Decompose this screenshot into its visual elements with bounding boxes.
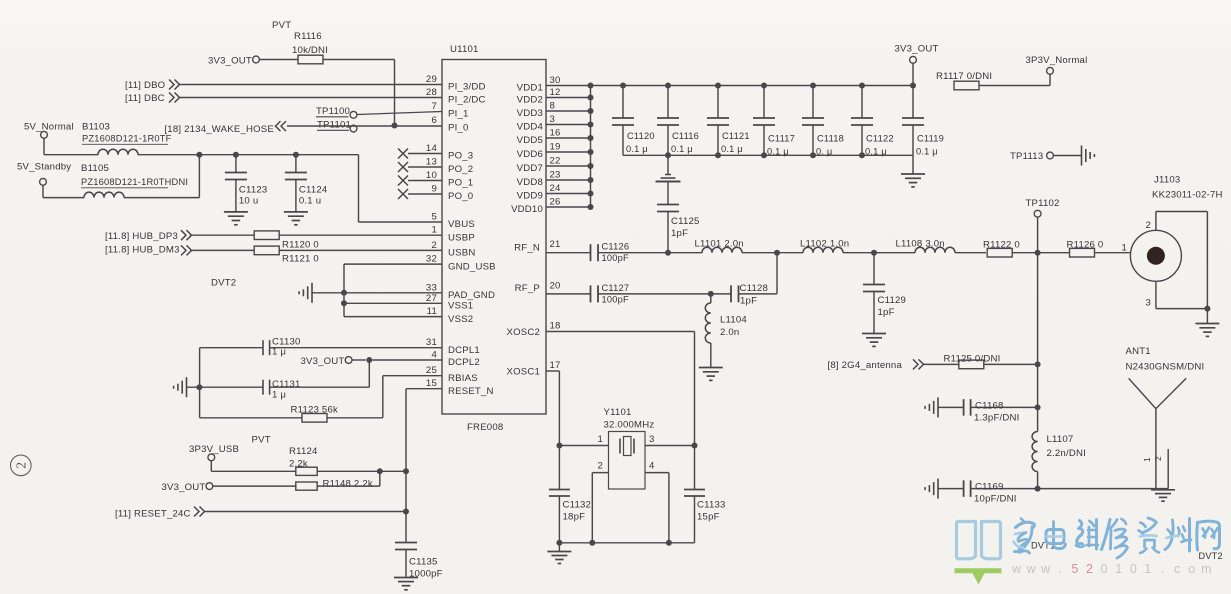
svg-text:VDD8: VDD8 [517,177,543,188]
svg-text:1: 1 [1142,457,1152,462]
svg-text:1pF: 1pF [878,307,895,318]
svg-text:2: 2 [597,461,603,472]
svg-text:1000pF: 1000pF [409,569,443,580]
svg-text:1: 1 [1121,243,1127,254]
svg-text:VDD6: VDD6 [517,149,543,160]
svg-text:11: 11 [427,306,437,317]
svg-text:w: w [1040,562,1051,576]
svg-text:18: 18 [550,321,561,332]
svg-text:5: 5 [1071,562,1078,576]
svg-text:R1120 0: R1120 0 [282,240,319,251]
svg-text:1.3pF/DNI: 1.3pF/DNI [974,412,1020,423]
svg-text:PZ1608D121-1R0TF: PZ1608D121-1R0TF [82,134,172,144]
svg-text:TP1100: TP1100 [316,106,350,117]
svg-text:13: 13 [426,157,437,168]
svg-text:R1124: R1124 [289,446,318,457]
svg-text:RF_P: RF_P [515,283,540,294]
svg-text:2: 2 [1145,220,1151,231]
svg-text:2.0n: 2.0n [720,327,739,338]
svg-text:C1123: C1123 [239,185,268,196]
svg-text:19: 19 [550,142,561,153]
svg-text:PI_0: PI_0 [448,123,469,134]
svg-text:24: 24 [550,183,562,194]
svg-text:VDD2: VDD2 [517,95,543,106]
svg-text:3: 3 [1145,298,1151,309]
svg-text:C1131: C1131 [272,379,301,390]
svg-text:23: 23 [550,170,561,181]
svg-text:100pF: 100pF [602,295,629,305]
svg-text:1 μ: 1 μ [272,390,286,401]
svg-text:L1101 2.0n: L1101 2.0n [695,239,744,250]
svg-text:[11] DBC: [11] DBC [125,93,165,104]
svg-text:22: 22 [550,156,561,167]
svg-text:3P3V_USB: 3P3V_USB [189,444,239,455]
svg-text:VDD1: VDD1 [517,83,543,94]
svg-text:32: 32 [426,254,437,265]
svg-text:R1123 56k: R1123 56k [291,405,339,416]
svg-text:[8] 2G4_antenna: [8] 2G4_antenna [828,360,903,371]
svg-text:1pF: 1pF [671,228,688,239]
svg-text:4: 4 [649,461,655,472]
svg-text:10pF/DNI: 10pF/DNI [974,494,1017,505]
svg-text:XOSC2: XOSC2 [506,327,540,338]
svg-text:TP1102: TP1102 [1026,198,1060,209]
svg-text:16: 16 [550,128,561,139]
svg-text:C1128: C1128 [740,283,769,294]
svg-text:ANT1: ANT1 [1126,346,1151,357]
svg-text:R1148 2.2k: R1148 2.2k [323,479,373,490]
svg-text:[11] RESET_24C: [11] RESET_24C [115,509,191,520]
svg-text:U1101: U1101 [450,44,479,55]
svg-text:0: 0 [1101,562,1108,576]
svg-text:25: 25 [426,365,437,376]
svg-text:TP1113: TP1113 [1010,151,1043,162]
svg-text:USBP: USBP [448,232,475,243]
svg-text:0. μ: 0. μ [816,147,833,157]
svg-text:VDD9: VDD9 [517,191,543,202]
svg-text:C1169: C1169 [975,482,1004,493]
svg-text:N2430GNSM/DNI: N2430GNSM/DNI [1126,362,1205,373]
svg-text:DCPL2: DCPL2 [448,357,480,368]
svg-text:o: o [1188,562,1195,576]
svg-text:1: 1 [431,225,437,236]
svg-text:1pF: 1pF [740,296,757,307]
svg-text:26: 26 [550,197,561,208]
svg-text:C1126: C1126 [602,242,630,252]
svg-text:31: 31 [426,337,437,348]
svg-text:3P3V_Normal: 3P3V_Normal [1026,55,1088,66]
svg-text:VSS2: VSS2 [448,314,473,325]
svg-text:R1116: R1116 [294,31,322,42]
svg-text:C1119: C1119 [917,134,944,144]
svg-text:3: 3 [550,114,556,125]
svg-text:C1117: C1117 [768,134,795,144]
svg-text:PZ1608D121-1R0THDNI: PZ1608D121-1R0THDNI [81,177,188,187]
svg-text:[11] DBO: [11] DBO [125,80,165,91]
svg-text:PO_0: PO_0 [448,191,473,202]
svg-text:VDD10: VDD10 [511,204,543,215]
svg-text:USBN: USBN [448,248,475,259]
svg-text:9: 9 [431,184,437,195]
svg-text:30: 30 [550,75,561,86]
svg-text:w: w [1011,562,1022,576]
svg-text:PI_1: PI_1 [448,109,469,120]
svg-text:5V_Normal: 5V_Normal [24,122,74,133]
svg-text:17: 17 [550,360,561,371]
svg-text:c: c [1174,562,1180,576]
svg-text:PI_3/DD: PI_3/DD [448,82,486,93]
svg-text:R1121 0: R1121 0 [282,254,319,265]
svg-text:2: 2 [1153,456,1163,461]
svg-text:2: 2 [1086,562,1093,576]
svg-text:RESET_N: RESET_N [448,386,494,397]
svg-text:1: 1 [597,434,603,445]
svg-text:28: 28 [426,87,437,98]
svg-text:0.1 μ: 0.1 μ [916,147,938,157]
svg-text:PO_2: PO_2 [448,164,473,175]
svg-text:.: . [1059,562,1062,576]
svg-text:VBUS: VBUS [448,219,475,230]
svg-text:15: 15 [426,378,437,389]
svg-text:[11.8] HUB_DM3: [11.8] HUB_DM3 [105,245,180,256]
svg-text:[11.8] HUB_DP3: [11.8] HUB_DP3 [105,231,178,242]
svg-text:R1125 0/DNI: R1125 0/DNI [944,354,1001,365]
svg-text:B1105: B1105 [81,163,109,174]
svg-text:R1117 0/DNI: R1117 0/DNI [936,71,992,82]
svg-text:[18] 2134_WAKE_HOSE: [18] 2134_WAKE_HOSE [164,124,274,135]
svg-text:C1127: C1127 [602,283,630,293]
svg-text:1: 1 [1144,562,1151,576]
svg-text:C1168: C1168 [975,400,1004,411]
svg-text:C1120: C1120 [627,131,655,141]
svg-text:6: 6 [431,115,437,126]
svg-text:L1104: L1104 [720,315,747,326]
svg-text:C1124: C1124 [299,185,328,196]
svg-text:32.000MHz: 32.000MHz [604,420,655,431]
svg-text:DVT2: DVT2 [1199,551,1223,561]
svg-text:VDD4: VDD4 [517,122,544,133]
svg-text:8: 8 [550,101,556,112]
svg-text:5V_Standby: 5V_Standby [17,162,71,173]
svg-text:DVT1: DVT1 [1031,541,1055,551]
svg-text:20: 20 [550,281,561,292]
svg-text:VSS1: VSS1 [448,301,473,312]
svg-text:B1103: B1103 [82,122,110,133]
svg-text:Y1101: Y1101 [604,407,632,418]
svg-text:VDD7: VDD7 [517,163,543,174]
svg-text:0.1 μ: 0.1 μ [721,144,743,154]
svg-text:RF_N: RF_N [514,243,540,254]
svg-text:2: 2 [13,462,28,469]
svg-text:PO_3: PO_3 [448,151,473,162]
svg-text:TP1101: TP1101 [317,120,351,131]
svg-text:18pF: 18pF [563,512,586,523]
svg-text:0: 0 [1130,562,1137,576]
svg-text:L1108 3.0n: L1108 3.0n [896,239,945,250]
svg-text:R1122 0: R1122 0 [983,240,1020,251]
svg-text:GND_USB: GND_USB [448,261,496,272]
svg-text:10k/DNI: 10k/DNI [292,45,328,56]
svg-text:C1133: C1133 [697,500,726,511]
svg-text:PO_1: PO_1 [448,178,473,189]
svg-text:L1102 1.0n: L1102 1.0n [800,239,849,250]
svg-text:15pF: 15pF [697,512,720,523]
svg-text:3V3_OUT: 3V3_OUT [161,482,205,493]
svg-text:R1126 0: R1126 0 [1067,240,1104,251]
svg-text:0.1 u: 0.1 u [299,196,321,207]
svg-text:2.2n/DNI: 2.2n/DNI [1047,448,1086,459]
svg-text:1 μ: 1 μ [272,347,286,358]
svg-text:0.1 μ: 0.1 μ [626,144,648,154]
svg-text:100pF: 100pF [602,253,629,263]
svg-text:3: 3 [649,434,655,445]
svg-text:C1135: C1135 [409,557,438,568]
svg-text:FRE008: FRE008 [467,422,503,433]
svg-text:12: 12 [550,87,561,98]
svg-text:3V3_OUT: 3V3_OUT [208,56,252,67]
svg-text:21: 21 [550,239,561,250]
svg-text:RBIAS: RBIAS [448,373,478,384]
svg-text:2: 2 [431,240,437,251]
svg-text:5: 5 [431,212,437,223]
svg-text:L1107: L1107 [1047,434,1074,445]
svg-text:14: 14 [426,143,438,154]
svg-text:m: m [1201,562,1211,576]
svg-text:0.1 μ: 0.1 μ [767,147,789,157]
svg-text:C1122: C1122 [866,134,894,144]
svg-text:10 u: 10 u [239,196,258,207]
svg-text:KK23011-02-7H: KK23011-02-7H [1152,190,1223,201]
svg-text:4: 4 [431,350,437,361]
svg-text:33: 33 [426,282,437,293]
svg-text:3V3_OUT: 3V3_OUT [300,356,344,367]
svg-text:PVT: PVT [252,435,271,446]
svg-text:DVT2: DVT2 [211,278,236,289]
svg-text:1: 1 [1115,562,1122,576]
svg-text:0.1 μ: 0.1 μ [671,144,693,154]
svg-text:29: 29 [426,74,437,85]
svg-text:DCPL1: DCPL1 [448,345,480,356]
svg-text:2.2k: 2.2k [289,459,308,470]
svg-text:w: w [1026,562,1037,576]
svg-text:3V3_OUT: 3V3_OUT [895,44,939,55]
svg-text:0.1 μ: 0.1 μ [865,147,887,157]
svg-text:C1125: C1125 [671,216,700,227]
svg-text:VDD5: VDD5 [517,135,543,146]
svg-text:10: 10 [426,170,437,181]
svg-text:C1132: C1132 [563,500,592,511]
svg-text:27: 27 [426,293,437,304]
svg-text:J1103: J1103 [1154,175,1180,186]
svg-text:XOSC1: XOSC1 [506,367,540,378]
svg-text:C1118: C1118 [817,134,844,144]
svg-text:.: . [1161,562,1164,576]
svg-text:PVT: PVT [272,20,291,31]
svg-text:7: 7 [431,101,437,112]
svg-text:C1121: C1121 [722,131,750,141]
svg-text:VDD3: VDD3 [517,108,543,119]
svg-text:PAD_GND: PAD_GND [448,290,495,301]
svg-text:C1129: C1129 [878,295,907,306]
svg-text:C1116: C1116 [672,131,699,141]
svg-text:PI_2/DC: PI_2/DC [448,95,486,106]
